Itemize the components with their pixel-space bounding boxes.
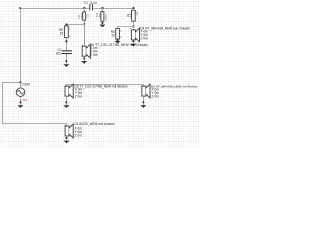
svg-text:1.5m: 1.5m bbox=[80, 13, 84, 20]
ground under C3 bbox=[99, 25, 105, 28]
wire bottom rail to D1 bbox=[2, 123, 67, 125]
node dot between R2 and C4 bbox=[65, 40, 67, 42]
node junction at source top bbox=[20, 81, 22, 83]
generator VS1 stem top bbox=[20, 83, 22, 89]
node dot above ground C4 bbox=[66, 60, 68, 62]
speaker D4 body bbox=[131, 28, 139, 42]
svg-text:2.83V: 2.83V bbox=[22, 83, 31, 87]
capacitor C3 stem bbox=[102, 8, 104, 12]
speaker D2 body bbox=[142, 84, 150, 98]
node dot above ground D1 bbox=[66, 137, 68, 139]
wire junction to R3 bbox=[117, 26, 134, 28]
wire R1 to junction bbox=[133, 21, 135, 27]
speaker D2 stub bbox=[143, 85, 145, 87]
inductor L2 stem bottom bbox=[84, 20, 86, 25]
node dot above ground D4 bbox=[133, 40, 135, 42]
svg-text:Z 0m: Z 0m bbox=[75, 133, 83, 137]
capacitor C3 body bbox=[101, 12, 104, 22]
inductor L2 stem top bbox=[84, 8, 86, 12]
capacitor C1 plates bbox=[88, 4, 91, 11]
speaker D6 body bbox=[82, 44, 90, 58]
generator VS1 circle bbox=[16, 88, 25, 97]
svg-text:6.8: 6.8 bbox=[128, 13, 132, 18]
ground under R3 bbox=[115, 41, 121, 44]
node dot above ground D6 bbox=[83, 58, 85, 60]
speaker D1 body bbox=[65, 124, 73, 138]
generator VS1 sine bbox=[18, 90, 24, 94]
svg-text:82u: 82u bbox=[56, 52, 62, 56]
node dot above ground R3 bbox=[117, 39, 119, 41]
svg-text:Z 0m: Z 0m bbox=[75, 95, 83, 99]
wire R3 to ground bbox=[117, 39, 119, 41]
ground under VS1 bbox=[17, 105, 23, 108]
wire far left vertical down bbox=[2, 82, 4, 124]
resistor R3 body bbox=[116, 29, 120, 39]
wire mid rail D5 to D2 bbox=[66, 84, 144, 86]
speaker D5 body bbox=[65, 84, 73, 98]
speaker D1 stub bbox=[66, 124, 68, 127]
node corner top rail right bbox=[133, 7, 135, 9]
resistor R2 body bbox=[65, 26, 69, 38]
wire D5 to ground bbox=[66, 96, 68, 105]
node junction C3 top bbox=[102, 7, 104, 9]
resistor R1 body bbox=[132, 10, 136, 21]
speaker D4 stub bbox=[133, 27, 135, 31]
svg-text:Z 0m: Z 0m bbox=[90, 53, 98, 57]
wire corner down to R3 bbox=[117, 27, 119, 29]
wire C4 to ground bbox=[66, 54, 68, 64]
svg-text:15: 15 bbox=[111, 33, 115, 37]
ground under D5 bbox=[63, 105, 69, 108]
svg-text:D6 TT_C2C-21TN8_NEW nur Chassi: D6 TT_C2C-21TN8_NEW nur Chassis bbox=[90, 43, 148, 47]
node dot above ground D5 bbox=[66, 101, 68, 103]
ground under D4 bbox=[130, 44, 136, 47]
wire mid branch horizontal bbox=[66, 24, 85, 26]
svg-text:R1: R1 bbox=[135, 11, 139, 15]
wire top rail left segment bbox=[20, 8, 90, 10]
svg-text:15: 15 bbox=[60, 32, 64, 36]
node top-left corner bbox=[19, 7, 21, 9]
svg-text:Z 0m: Z 0m bbox=[140, 37, 148, 41]
capacitor C3 stem bottom bbox=[102, 21, 104, 25]
wire D2 to ground bbox=[143, 96, 145, 105]
node dot above ground D2 bbox=[143, 101, 145, 103]
ground under C4 bbox=[63, 64, 69, 67]
svg-text:47u: 47u bbox=[98, 12, 102, 17]
wire top rail right segment bbox=[92, 8, 134, 10]
wire D4 to ground bbox=[133, 40, 135, 44]
svg-text:VS1: VS1 bbox=[22, 98, 28, 102]
ground under D1 bbox=[63, 141, 69, 144]
ground under D6 bbox=[81, 61, 87, 64]
node junction C1 left bbox=[83, 7, 85, 9]
node junction under R1 bbox=[133, 26, 135, 28]
svg-text:D5 TT_C2C-21TN8_NEW mit Weiche: D5 TT_C2C-21TN8_NEW mit Weiche bbox=[74, 84, 128, 88]
wire D6 to ground bbox=[84, 56, 86, 61]
inductor L2 body bbox=[83, 12, 86, 20]
svg-text:8.2u: 8.2u bbox=[90, 1, 96, 5]
svg-text:1.0m: 1.0m bbox=[104, 14, 108, 21]
ground under D2 bbox=[140, 105, 146, 108]
wire D1 to ground bbox=[66, 136, 68, 141]
speaker D5 stub bbox=[66, 85, 68, 87]
wire L2 node down to D6 bbox=[84, 25, 86, 47]
svg-text:Z 0m: Z 0m bbox=[152, 95, 160, 99]
wire R2 to C4 bbox=[66, 38, 68, 51]
wire source node to far left bbox=[2, 82, 21, 84]
node dot above ground VS1 bbox=[20, 101, 22, 103]
generator VS1 stem bottom bbox=[20, 96, 22, 105]
node dot above ground C3 bbox=[102, 22, 104, 24]
svg-text:C1: C1 bbox=[84, 1, 88, 5]
node junction below L2 bbox=[83, 24, 85, 26]
node junction R2 top bbox=[66, 24, 68, 26]
svg-text:L2: L2 bbox=[85, 14, 89, 18]
capacitor C4 plates bbox=[62, 50, 72, 51]
wire left vertical from top rail to source node bbox=[20, 8, 22, 83]
